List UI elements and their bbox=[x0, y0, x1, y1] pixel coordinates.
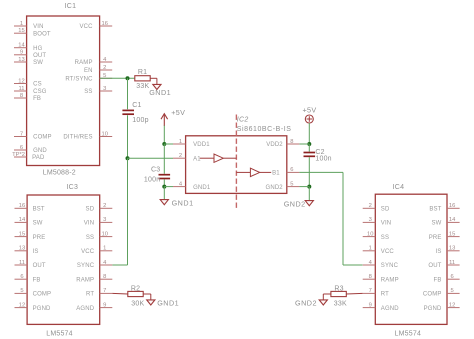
svg-text:RAMP: RAMP bbox=[381, 277, 399, 283]
svg-text:6: 6 bbox=[20, 145, 23, 151]
ground GND1 below C3 bbox=[160, 199, 193, 208]
svg-text:100n: 100n bbox=[144, 177, 160, 184]
svg-text:2: 2 bbox=[369, 203, 372, 209]
svg-text:GND2: GND2 bbox=[284, 200, 306, 209]
svg-text:7: 7 bbox=[103, 288, 106, 294]
IC3 pin 7 RT bbox=[86, 288, 112, 297]
svg-text:LM5574: LM5574 bbox=[46, 331, 73, 338]
op-amp U? : IC1 LM5088-2 box bbox=[27, 3, 100, 177]
IC4 pin 7 RT bbox=[363, 288, 389, 297]
svg-text:EN: EN bbox=[84, 68, 93, 74]
wire junction down to IC3 SYNC bbox=[112, 158, 127, 265]
svg-text:15: 15 bbox=[449, 231, 455, 237]
svg-text:9: 9 bbox=[103, 302, 106, 308]
svg-text:9: 9 bbox=[369, 302, 372, 308]
IC2 pin 5 GND2 bbox=[266, 181, 300, 190]
svg-text:VIN: VIN bbox=[381, 221, 391, 227]
svg-text:PAD: PAD bbox=[32, 155, 45, 161]
IC1 pin 3 SS bbox=[84, 86, 112, 95]
IC2 pin 1 VDD1 bbox=[173, 139, 210, 148]
svg-text:AGND: AGND bbox=[76, 306, 94, 312]
IC3 pin 4 SYNC bbox=[77, 260, 112, 269]
svg-text:PGND: PGND bbox=[33, 306, 51, 312]
junction VDD2 node bbox=[307, 142, 311, 146]
svg-text:1: 1 bbox=[369, 246, 372, 252]
wire R3 to GND2 bbox=[323, 294, 331, 300]
svg-text:1: 1 bbox=[20, 21, 23, 27]
svg-text:100p: 100p bbox=[132, 117, 148, 124]
svg-text:8: 8 bbox=[290, 139, 293, 145]
svg-text:11: 11 bbox=[18, 86, 24, 92]
svg-text:IS: IS bbox=[436, 249, 442, 255]
IC1 pin 10 DITH/RES bbox=[63, 131, 112, 140]
wire GND2 junction to pin 5 bbox=[299, 186, 309, 188]
svg-text:1: 1 bbox=[103, 246, 106, 252]
svg-text:VIN: VIN bbox=[84, 221, 94, 227]
resistor R3 bbox=[331, 286, 347, 308]
IC4 pin 2 SD bbox=[363, 203, 390, 212]
svg-text:IS: IS bbox=[33, 249, 39, 255]
svg-text:R1: R1 bbox=[138, 69, 147, 76]
svg-text:GND: GND bbox=[33, 148, 47, 154]
IC4 pin 4 SYNC bbox=[363, 260, 399, 269]
svg-text:PRE: PRE bbox=[33, 235, 46, 241]
svg-text:R2: R2 bbox=[131, 286, 140, 293]
svg-text:A1: A1 bbox=[193, 156, 201, 162]
svg-text:SS: SS bbox=[84, 89, 92, 95]
wire R2 to GND1 bbox=[143, 294, 151, 300]
svg-text:HG: HG bbox=[33, 46, 42, 52]
svg-text:2: 2 bbox=[179, 153, 182, 159]
svg-text:2: 2 bbox=[103, 203, 106, 209]
svg-text:6: 6 bbox=[450, 274, 453, 280]
IC2 pin 2 A1 bbox=[173, 153, 201, 162]
IC1 pin 4 RAMP bbox=[75, 57, 113, 66]
wire A1 net bbox=[128, 157, 174, 159]
wire C1 to A1 junction bbox=[127, 115, 129, 158]
ground GND1 at R1 bbox=[149, 84, 171, 97]
svg-text:SS: SS bbox=[86, 235, 94, 241]
svg-text:SYNC: SYNC bbox=[77, 263, 95, 269]
svg-text:C3: C3 bbox=[151, 167, 160, 174]
wire GND1 junction to pin 4 bbox=[164, 186, 173, 188]
svg-text:LM5088-2: LM5088-2 bbox=[43, 169, 76, 176]
capacitor C3 bbox=[144, 167, 170, 184]
svg-text:8: 8 bbox=[369, 274, 372, 280]
buffer A1 inside IC2 bbox=[200, 154, 237, 162]
IC1 pin 11 CSG bbox=[14, 86, 47, 95]
IC1 pin 1 VIN bbox=[14, 21, 44, 30]
svg-text:8: 8 bbox=[103, 274, 106, 280]
IC4 pin 14 SW bbox=[432, 217, 460, 226]
svg-text:13: 13 bbox=[19, 246, 25, 252]
svg-text:RT/SYNC: RT/SYNC bbox=[65, 77, 93, 83]
IC3 pin 5 COMP bbox=[15, 288, 52, 297]
isolation dashed line bbox=[235, 115, 237, 211]
svg-text:6: 6 bbox=[290, 167, 293, 173]
svg-text:10: 10 bbox=[102, 231, 108, 237]
IC2 pin 6 B1 bbox=[272, 167, 299, 177]
svg-text:LM5574: LM5574 bbox=[395, 331, 422, 338]
svg-text:SYNC: SYNC bbox=[381, 263, 399, 269]
svg-text:15: 15 bbox=[19, 231, 25, 237]
IC4 pin 9 AGND bbox=[363, 302, 400, 311]
wire VDD1 junction to pin bbox=[164, 143, 173, 145]
svg-text:RT: RT bbox=[86, 292, 94, 298]
svg-text:3: 3 bbox=[103, 217, 106, 223]
IC3 pin 10 SS bbox=[86, 231, 112, 240]
svg-text:Si8610BC-B-IS: Si8610BC-B-IS bbox=[237, 126, 292, 133]
svg-text:GND2: GND2 bbox=[295, 299, 317, 308]
IC4 pin 3 VIN bbox=[363, 217, 392, 226]
svg-text:7: 7 bbox=[20, 131, 23, 137]
IC3 pin 16 BST bbox=[15, 203, 45, 212]
IC1 pin 12 CS bbox=[14, 78, 42, 87]
IC4 pin 8 RAMP bbox=[363, 274, 399, 283]
svg-text:33K: 33K bbox=[334, 300, 347, 307]
svg-text:PGND: PGND bbox=[424, 306, 442, 312]
svg-text:GND1: GND1 bbox=[149, 88, 171, 97]
resistor R1 bbox=[135, 69, 150, 90]
svg-text:14: 14 bbox=[18, 43, 25, 49]
IC1 pin 16 VCC bbox=[79, 21, 112, 30]
wire C2 to GND2 junction bbox=[308, 157, 310, 186]
svg-text:IC1: IC1 bbox=[65, 3, 77, 10]
svg-text:CSG: CSG bbox=[33, 89, 47, 95]
capacitor C2 bbox=[304, 149, 332, 163]
IC3 pin 1 VCC bbox=[81, 246, 112, 255]
svg-text:COMP: COMP bbox=[33, 292, 52, 298]
junction VDD1 node bbox=[162, 142, 166, 146]
IC2 Si8610BC-B-IS box bbox=[186, 117, 292, 194]
IC1 pin 6 GND bbox=[14, 145, 47, 154]
IC3 pin 15 PRE bbox=[15, 231, 46, 240]
ground GND2 at R3 bbox=[295, 299, 327, 308]
svg-text:COMP: COMP bbox=[33, 135, 52, 141]
wire R1 to GND1 bbox=[150, 78, 157, 84]
svg-text:GND1: GND1 bbox=[172, 199, 194, 208]
IC3 pin 9 AGND bbox=[76, 302, 112, 311]
IC4 LM5574 box bbox=[375, 184, 447, 338]
svg-text:SW: SW bbox=[432, 221, 442, 227]
svg-text:16: 16 bbox=[19, 203, 25, 209]
svg-text:+5V: +5V bbox=[303, 106, 317, 115]
svg-text:100n: 100n bbox=[315, 155, 331, 162]
svg-text:OUT: OUT bbox=[428, 263, 441, 269]
svg-text:3: 3 bbox=[103, 86, 106, 92]
IC4 pin 1 VCC bbox=[363, 246, 395, 255]
svg-text:SD: SD bbox=[381, 207, 390, 213]
svg-text:12: 12 bbox=[449, 302, 455, 308]
svg-text:TP*2: TP*2 bbox=[12, 152, 25, 158]
svg-text:14: 14 bbox=[19, 217, 26, 223]
svg-text:3: 3 bbox=[369, 217, 372, 223]
IC1 pin 13 SW bbox=[14, 57, 43, 66]
IC1 pin TP*2 PAD bbox=[12, 152, 45, 161]
svg-text:15: 15 bbox=[18, 28, 24, 34]
svg-text:8: 8 bbox=[20, 93, 23, 99]
svg-text:1: 1 bbox=[179, 139, 182, 145]
svg-text:13: 13 bbox=[18, 57, 24, 63]
svg-text:7: 7 bbox=[369, 288, 372, 294]
svg-text:12: 12 bbox=[19, 302, 25, 308]
IC1 pin 2 EN bbox=[84, 65, 112, 74]
svg-text:IC4: IC4 bbox=[393, 184, 405, 191]
IC3 LM5574 box bbox=[27, 184, 100, 338]
wire +5V to VDD1 bbox=[163, 126, 165, 144]
IC4 pin 10 SS bbox=[363, 231, 389, 240]
IC3 pin 6 FB bbox=[15, 274, 41, 283]
IC1 pin 15 BOOT bbox=[14, 28, 51, 37]
wire VDD2 junction to pin 8 bbox=[299, 143, 309, 145]
ground GND2 below IC2 bbox=[284, 200, 314, 209]
svg-text:6: 6 bbox=[20, 274, 23, 280]
svg-text:VCC: VCC bbox=[79, 24, 93, 30]
svg-text:SW: SW bbox=[33, 60, 43, 66]
svg-text:BOOT: BOOT bbox=[33, 31, 51, 37]
junction R1/C1 node bbox=[126, 76, 130, 80]
IC3 pin 11 OUT bbox=[15, 260, 46, 269]
svg-text:2: 2 bbox=[103, 65, 106, 71]
wire VDD1 down to C3 bbox=[163, 144, 165, 174]
svg-text:16: 16 bbox=[449, 203, 455, 209]
wire down to GND1 symbol bbox=[163, 187, 165, 200]
svg-text:30K: 30K bbox=[131, 300, 144, 307]
wire down to GND2 symbol bbox=[308, 187, 310, 201]
svg-text:OUT: OUT bbox=[33, 263, 46, 269]
IC4 pin 16 BST bbox=[429, 203, 459, 212]
svg-text:FB: FB bbox=[434, 277, 442, 283]
svg-text:B1: B1 bbox=[272, 171, 280, 177]
supply +5V arrow left bbox=[161, 108, 185, 126]
svg-text:IC2: IC2 bbox=[237, 117, 249, 124]
svg-text:AGND: AGND bbox=[381, 306, 399, 312]
svg-text:VCC: VCC bbox=[381, 249, 395, 255]
supply +5V circle right bbox=[303, 106, 317, 123]
svg-text:16: 16 bbox=[101, 21, 107, 27]
svg-text:VDD1: VDD1 bbox=[193, 142, 210, 148]
svg-text:+5V: +5V bbox=[171, 108, 185, 117]
IC1 pin 7 COMP bbox=[14, 131, 52, 140]
IC3 pin 12 PGND bbox=[15, 302, 52, 311]
IC3 pin 14 SW bbox=[15, 217, 43, 226]
svg-text:5: 5 bbox=[290, 181, 293, 187]
svg-text:SS: SS bbox=[381, 235, 389, 241]
svg-text:C1: C1 bbox=[132, 102, 141, 109]
svg-text:COMP: COMP bbox=[423, 292, 442, 298]
svg-text:33K: 33K bbox=[136, 83, 149, 90]
IC4 pin 5 COMP bbox=[423, 288, 460, 297]
junction GND1 node bbox=[162, 185, 166, 189]
wire C1 vertical upper bbox=[127, 78, 129, 109]
svg-text:VDD2: VDD2 bbox=[266, 142, 283, 148]
svg-text:GND1: GND1 bbox=[157, 299, 179, 308]
svg-text:11: 11 bbox=[19, 260, 25, 266]
IC3 pin 8 RAMP bbox=[76, 274, 112, 283]
IC3 pin 2 SD bbox=[86, 203, 113, 212]
svg-text:14: 14 bbox=[449, 217, 456, 223]
svg-text:VCC: VCC bbox=[81, 249, 95, 255]
svg-text:9: 9 bbox=[20, 50, 23, 56]
IC1 pin 9 OUT bbox=[14, 50, 46, 59]
wire C3 to GND1 junction bbox=[163, 179, 165, 186]
svg-text:R3: R3 bbox=[334, 286, 343, 293]
svg-text:RAMP: RAMP bbox=[75, 60, 93, 66]
svg-text:RT: RT bbox=[381, 292, 389, 298]
wire IC3 RT to R2 bbox=[112, 292, 128, 295]
wire +5V circle down to VDD2 bbox=[308, 123, 310, 144]
wire IC4 RT to R3 bbox=[346, 292, 362, 295]
IC4 pin 11 OUT bbox=[428, 260, 459, 269]
capacitor C1 bbox=[122, 102, 148, 124]
IC1 pin 5 RT/SYNC bbox=[65, 73, 112, 82]
IC4 pin 15 PRE bbox=[429, 231, 460, 240]
junction GND2 node bbox=[307, 185, 311, 189]
svg-text:IC3: IC3 bbox=[66, 184, 78, 191]
svg-text:FB: FB bbox=[33, 96, 41, 102]
svg-text:10: 10 bbox=[101, 131, 107, 137]
svg-text:GND1: GND1 bbox=[193, 185, 211, 191]
resistor R2 bbox=[128, 286, 145, 308]
wire VDD2 down to C2 bbox=[308, 144, 310, 152]
svg-text:GND2: GND2 bbox=[266, 185, 284, 191]
svg-text:12: 12 bbox=[18, 78, 24, 84]
IC4 pin 6 FB bbox=[434, 274, 460, 283]
IC2 pin 4 GND1 bbox=[173, 181, 211, 190]
junction A1 node bbox=[126, 156, 130, 160]
svg-text:PRE: PRE bbox=[429, 235, 442, 241]
svg-text:SW: SW bbox=[33, 221, 43, 227]
svg-text:BST: BST bbox=[33, 207, 45, 213]
IC1 pin 14 HG bbox=[14, 43, 43, 52]
svg-text:FB: FB bbox=[33, 277, 41, 283]
IC3 pin 13 IS bbox=[15, 246, 39, 255]
svg-text:SD: SD bbox=[86, 207, 95, 213]
wire RT/SYNC net horizontal bbox=[100, 77, 135, 79]
ground GND1 at R2 bbox=[147, 299, 179, 308]
svg-text:VIN: VIN bbox=[33, 24, 43, 30]
svg-text:CS: CS bbox=[33, 82, 42, 88]
svg-text:11: 11 bbox=[449, 260, 455, 266]
wire B1 net to IC4 SYNC bbox=[299, 172, 362, 265]
svg-text:5: 5 bbox=[450, 288, 453, 294]
IC1 pin 8 FB bbox=[14, 93, 41, 102]
svg-text:10: 10 bbox=[367, 231, 373, 237]
svg-text:13: 13 bbox=[449, 246, 455, 252]
IC2 pin 8 VDD2 bbox=[266, 139, 299, 148]
IC4 pin 12 PGND bbox=[424, 302, 460, 311]
IC4 pin 13 IS bbox=[436, 246, 460, 255]
svg-text:OUT: OUT bbox=[33, 53, 46, 59]
svg-text:RAMP: RAMP bbox=[76, 277, 94, 283]
IC3 pin 3 VIN bbox=[84, 217, 113, 226]
svg-text:DITH/RES: DITH/RES bbox=[63, 135, 92, 141]
buffer B1 inside IC2 bbox=[236, 168, 271, 176]
svg-text:5: 5 bbox=[20, 288, 23, 294]
svg-text:BST: BST bbox=[429, 207, 441, 213]
